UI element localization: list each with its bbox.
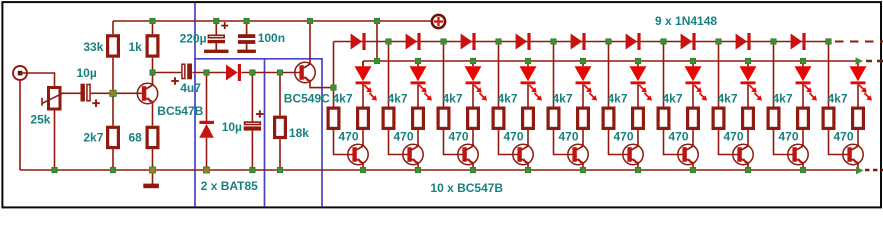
svg-text:470: 470 — [393, 130, 413, 144]
svg-text:BC549C: BC549C — [284, 91, 330, 105]
svg-text:10µ: 10µ — [222, 120, 242, 134]
svg-text:470: 470 — [668, 130, 688, 144]
svg-text:470: 470 — [338, 130, 358, 144]
svg-text:4k7: 4k7 — [773, 92, 793, 106]
svg-text:4k7: 4k7 — [443, 92, 463, 106]
svg-text:68: 68 — [128, 130, 142, 144]
svg-text:470: 470 — [723, 130, 743, 144]
svg-text:25k: 25k — [30, 113, 50, 127]
svg-text:470: 470 — [833, 130, 853, 144]
svg-text:1k: 1k — [128, 40, 142, 54]
svg-text:470: 470 — [558, 130, 578, 144]
svg-text:BC547B: BC547B — [157, 104, 203, 118]
svg-text:2k7: 2k7 — [83, 130, 103, 144]
svg-text:10 x BC547B: 10 x BC547B — [430, 181, 503, 195]
svg-text:470: 470 — [503, 130, 523, 144]
svg-text:4u7: 4u7 — [180, 81, 201, 95]
svg-text:2 x BAT85: 2 x BAT85 — [201, 179, 258, 193]
svg-text:4k7: 4k7 — [388, 92, 408, 106]
svg-text:4k7: 4k7 — [608, 92, 628, 106]
svg-text:100n: 100n — [258, 31, 285, 45]
svg-text:4k7: 4k7 — [498, 92, 518, 106]
svg-text:220µ: 220µ — [180, 31, 207, 45]
svg-text:4k7: 4k7 — [553, 92, 573, 106]
svg-text:4k7: 4k7 — [718, 92, 738, 106]
svg-text:33k: 33k — [83, 40, 103, 54]
svg-text:4k7: 4k7 — [333, 92, 353, 106]
svg-text:470: 470 — [613, 130, 633, 144]
svg-text:470: 470 — [448, 130, 468, 144]
svg-text:10µ: 10µ — [77, 66, 97, 80]
svg-text:18k: 18k — [289, 126, 309, 140]
svg-text:470: 470 — [778, 130, 798, 144]
svg-text:4k7: 4k7 — [663, 92, 683, 106]
svg-text:9 x 1N4148: 9 x 1N4148 — [655, 14, 717, 28]
svg-text:4k7: 4k7 — [828, 92, 848, 106]
